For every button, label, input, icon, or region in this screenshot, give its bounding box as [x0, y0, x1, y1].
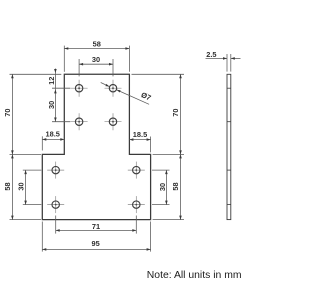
svg-text:30: 30: [92, 55, 100, 64]
svg-text:18.5: 18.5: [133, 130, 147, 139]
svg-text:71: 71: [92, 222, 100, 231]
svg-text:12: 12: [47, 77, 56, 85]
svg-text:58: 58: [93, 39, 101, 48]
svg-text:58: 58: [3, 182, 12, 190]
svg-text:70: 70: [3, 108, 12, 116]
svg-text:2.5: 2.5: [206, 50, 216, 59]
svg-text:58: 58: [171, 182, 180, 190]
svg-text:18.5: 18.5: [46, 130, 60, 139]
svg-text:30: 30: [158, 183, 167, 191]
svg-text:70: 70: [171, 108, 180, 116]
svg-text:95: 95: [91, 239, 99, 248]
svg-text:Note: All units in mm: Note: All units in mm: [147, 270, 242, 281]
svg-text:30: 30: [47, 101, 56, 109]
svg-text:30: 30: [17, 182, 26, 190]
